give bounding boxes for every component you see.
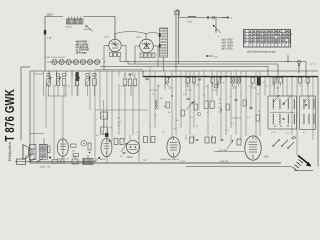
svg-text:AM 2: AM 2 (127, 156, 133, 159)
svg-text:0,5: 0,5 (183, 94, 186, 96)
svg-text:0,5: 0,5 (109, 127, 112, 129)
svg-text:5xUY 1x5 4x4 4x5 4x2 5: 5xUY 1x5 4x4 4x5 4x2 5 (46, 57, 65, 59)
svg-text:0,1: 0,1 (286, 133, 289, 135)
svg-text:0,1: 0,1 (266, 86, 269, 88)
svg-text:40: 40 (223, 83, 225, 85)
svg-text:0,9Dr: 0,9Dr (187, 21, 192, 24)
svg-text:EF 11: EF 11 (100, 159, 106, 161)
svg-text:0,1: 0,1 (226, 130, 229, 132)
svg-text:0,1: 0,1 (48, 86, 51, 88)
svg-text:0,5: 0,5 (173, 128, 176, 130)
svg-text:25: 25 (158, 86, 160, 88)
svg-text:50: 50 (187, 86, 189, 88)
svg-text:0,3: 0,3 (229, 96, 232, 98)
svg-text:0,05 100: 0,05 100 (219, 150, 228, 152)
svg-text:AZ 11: AZ 11 (105, 36, 110, 39)
svg-text:50: 50 (118, 125, 120, 127)
svg-text:x: x (241, 94, 242, 96)
svg-text:220V~ 50: 220V~ 50 (40, 166, 51, 168)
svg-text:50: 50 (68, 86, 70, 88)
svg-text:1-A2: 1-A2 (264, 156, 270, 159)
svg-text:30: 30 (196, 126, 198, 128)
svg-text:250V max: 250V max (76, 51, 88, 54)
svg-text:0,1 M: 0,1 M (180, 161, 185, 163)
svg-text:70: 70 (203, 95, 205, 97)
svg-text:AZ 11: AZ 11 (137, 36, 142, 39)
svg-text:25: 25 (134, 86, 136, 88)
svg-text:0,2: 0,2 (205, 86, 208, 88)
svg-text:m80 +240V: m80 +240V (222, 43, 234, 45)
svg-text:2M: 2M (219, 107, 222, 109)
svg-text:6: 6 (297, 86, 298, 88)
svg-text:x2: x2 (207, 112, 209, 114)
svg-text:6+6: 6+6 (72, 151, 75, 153)
svg-text:a 2A: a 2A (47, 37, 52, 40)
svg-text:0,1: 0,1 (121, 86, 124, 88)
svg-text:0,05yF 5yF EBF 11: 0,05yF 5yF EBF 11 (160, 159, 180, 161)
svg-text:0,05 100: 0,05 100 (220, 161, 229, 163)
svg-text:2k: 2k (152, 94, 154, 96)
svg-text:5k: 5k (257, 94, 259, 96)
svg-text:40: 40 (118, 118, 120, 120)
svg-text:0,1: 0,1 (154, 115, 157, 117)
svg-text:a0,1: a0,1 (118, 122, 122, 124)
svg-text:2: 2 (244, 128, 245, 130)
svg-text:T 876 GWK: T 876 GWK (4, 88, 18, 141)
svg-text:0,1: 0,1 (247, 117, 250, 119)
svg-text:Telefunken: Telefunken (7, 141, 12, 161)
svg-text:p60 +245V: p60 +245V (222, 40, 234, 42)
svg-text:1: 1 (146, 82, 147, 84)
svg-text:40: 40 (168, 112, 170, 114)
svg-text:a80 +230V: a80 +230V (222, 49, 234, 51)
svg-text:0,1: 0,1 (303, 132, 306, 134)
svg-text:0,1: 0,1 (168, 86, 171, 88)
svg-text:1: 1 (96, 119, 97, 121)
svg-text:+: + (231, 16, 233, 20)
svg-text:0,2: 0,2 (273, 132, 276, 134)
svg-text:alle Elektrodenspannungen: alle Elektrodenspannungen (247, 51, 277, 54)
svg-text:0,1: 0,1 (249, 86, 252, 88)
svg-text:20: 20 (258, 111, 260, 113)
svg-text:10: 10 (233, 86, 235, 88)
svg-text:U 1011: U 1011 (65, 27, 73, 29)
svg-text:g: g (107, 50, 108, 52)
svg-text:5: 5 (271, 133, 272, 135)
svg-text:1M: 1M (163, 106, 166, 108)
svg-text:5: 5 (213, 126, 214, 128)
svg-text:w30 +235V: w30 +235V (222, 46, 234, 48)
svg-text:220V: 220V (47, 13, 53, 17)
svg-text:0,2: 0,2 (190, 117, 193, 119)
